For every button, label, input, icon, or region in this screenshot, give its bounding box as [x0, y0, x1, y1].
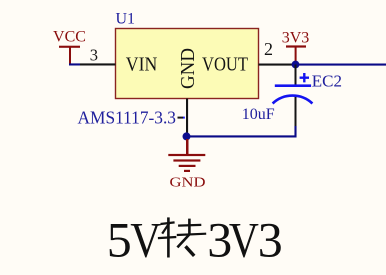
- svg-text:GND: GND: [178, 48, 199, 89]
- svg-text:VIN: VIN: [126, 55, 158, 76]
- svg-text:GND: GND: [170, 175, 206, 190]
- svg-text:VOUT: VOUT: [202, 55, 248, 76]
- svg-text:10uF: 10uF: [242, 106, 275, 123]
- svg-text:V: V: [130, 211, 161, 267]
- svg-text:2: 2: [264, 39, 273, 59]
- svg-text:U1: U1: [116, 11, 136, 28]
- svg-text:EC2: EC2: [312, 72, 342, 91]
- svg-text:5: 5: [107, 211, 132, 267]
- svg-text:3: 3: [258, 211, 283, 267]
- svg-text:AMS1117-3.3: AMS1117-3.3: [78, 108, 177, 128]
- svg-text:VCC: VCC: [53, 29, 86, 46]
- svg-text:3V3: 3V3: [282, 29, 310, 46]
- svg-text:3: 3: [90, 46, 98, 65]
- svg-text:V: V: [229, 211, 259, 267]
